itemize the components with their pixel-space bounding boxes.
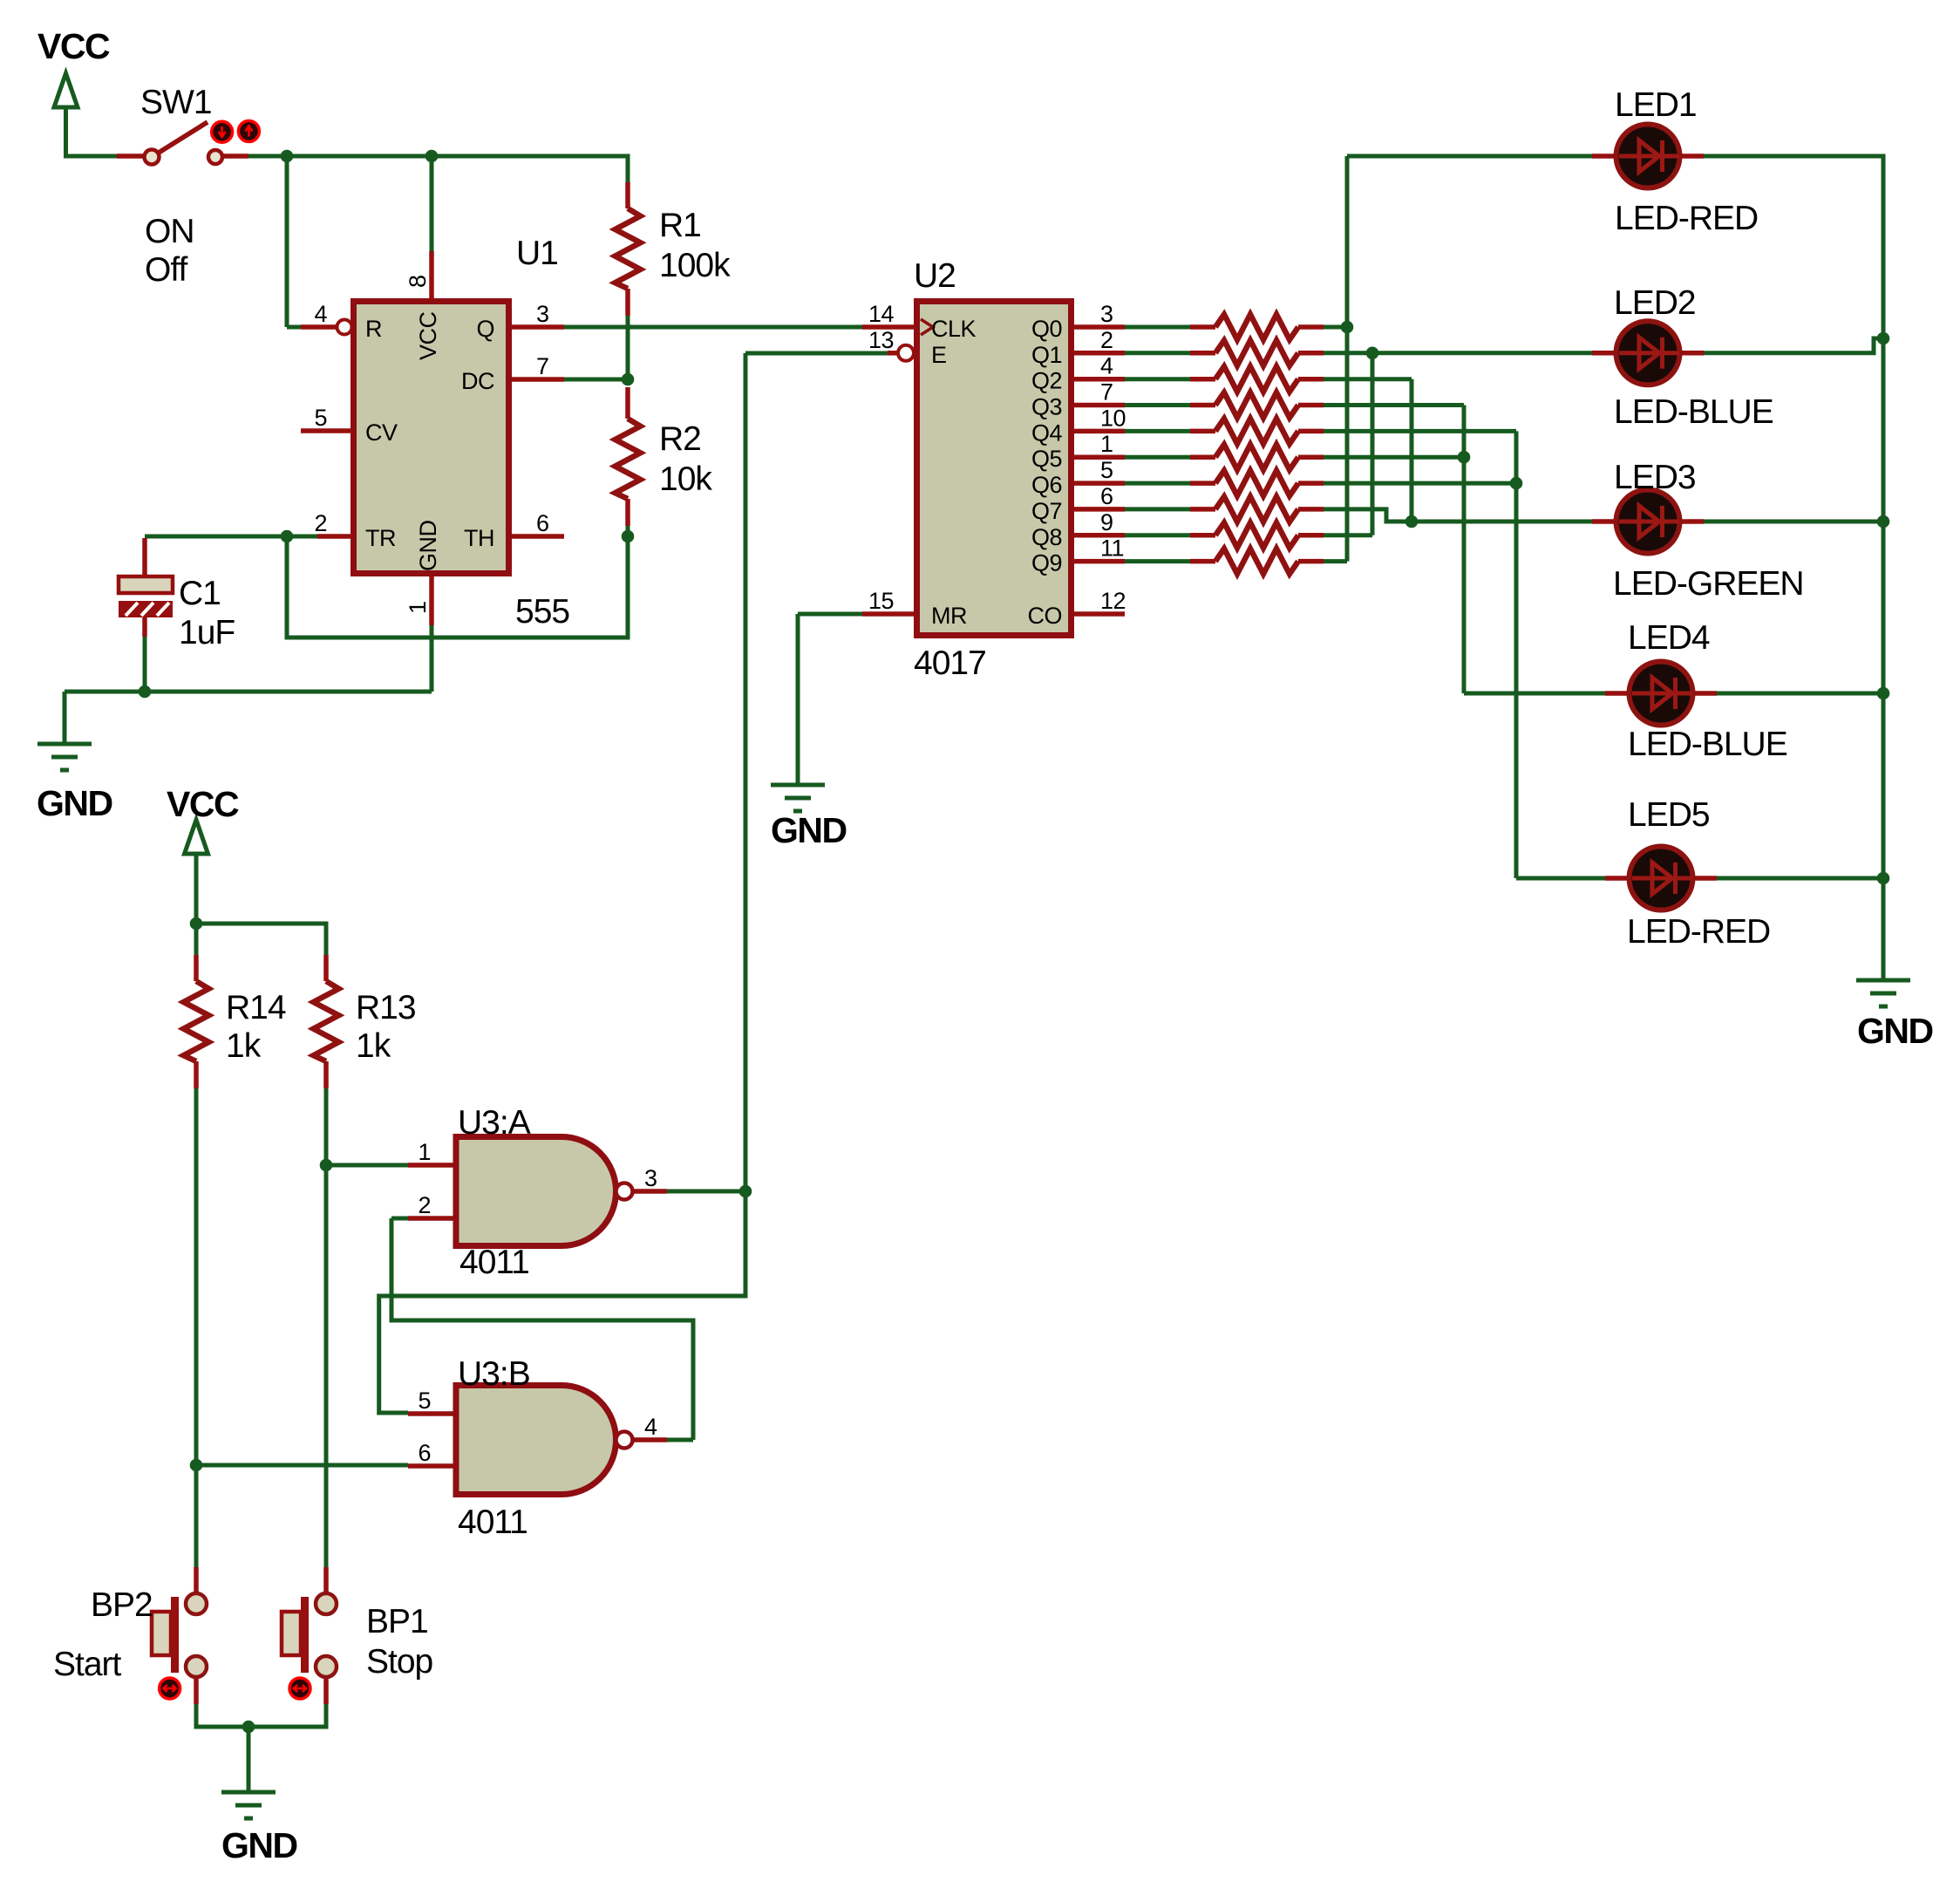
value 1k R13: [356, 1027, 391, 1065]
svg-text:GND: GND: [771, 810, 847, 850]
value 100k: [659, 247, 731, 284]
value LED-BLUE 2: [1614, 393, 1773, 431]
svg-text:R1: R1: [659, 207, 701, 244]
svg-text:1uF: 1uF: [179, 614, 235, 651]
pin stub U1 Q3: [512, 324, 564, 330]
junction LED3 colC: [1405, 515, 1419, 528]
svg-text:Q8: Q8: [1031, 524, 1062, 550]
label R1: [659, 207, 701, 244]
label LED1: [1615, 86, 1697, 124]
junction Q5 colD: [1458, 451, 1471, 464]
svg-text:1k: 1k: [226, 1027, 262, 1065]
pin stub U1 R with bubble: [301, 320, 352, 335]
pin number 2 U1: [314, 510, 327, 536]
value LED-RED 5: [1627, 913, 1770, 951]
pin stub U1 TR2: [317, 534, 350, 539]
pin number 14 U2: [868, 301, 895, 327]
wire Q3 Q5 to LED4: [1324, 406, 1605, 694]
svg-text:4: 4: [644, 1414, 657, 1440]
LED1: [1616, 125, 1680, 188]
svg-text:1: 1: [418, 1139, 431, 1165]
label Stop: [366, 1643, 433, 1681]
svg-text:4011: 4011: [458, 1504, 527, 1541]
pin number 4 U1: [314, 301, 327, 327]
wire LED3 right: [1704, 520, 1883, 524]
pin stub U2 MR: [862, 611, 914, 617]
pin number 5 U3B: [418, 1388, 431, 1414]
power VCC arrow lower: [185, 820, 208, 854]
pin number 15 U2: [868, 588, 894, 614]
svg-text:U2: U2: [914, 257, 956, 295]
svg-text:15: 15: [868, 588, 894, 614]
wire LED4 right: [1717, 692, 1883, 696]
pin name R: [365, 316, 382, 342]
value LED-BLUE 4: [1628, 726, 1787, 763]
svg-text:3: 3: [536, 301, 549, 327]
wire right cathode bus: [1704, 156, 1883, 980]
label ON: [145, 213, 194, 250]
pin name TR: [365, 525, 396, 551]
pin stub U2 CO: [1074, 611, 1125, 617]
svg-text:1k: 1k: [356, 1027, 391, 1065]
value 1k R14: [226, 1027, 262, 1065]
pin name E: [931, 342, 947, 368]
svg-text:LED4: LED4: [1628, 619, 1710, 657]
svg-text:GND: GND: [37, 783, 112, 823]
ground symbol 555 area: [37, 744, 92, 770]
wire 555 GND to rail: [65, 625, 432, 744]
capacitor C1: [119, 576, 173, 617]
svg-text:2: 2: [314, 510, 327, 536]
svg-text:R13: R13: [356, 989, 416, 1026]
op-amp U3:B NAND gate: [456, 1386, 633, 1495]
svg-text:ON: ON: [145, 213, 194, 250]
svg-text:U3:A: U3:A: [458, 1104, 531, 1142]
svg-text:SW1: SW1: [140, 84, 212, 121]
wire R13 bottom to BP1 and gate pin1: [326, 1088, 408, 1567]
svg-text:Q6: Q6: [1031, 472, 1062, 498]
LED2: [1616, 321, 1680, 385]
svg-text:8: 8: [405, 275, 431, 288]
pin stub BP2 bottom: [194, 1677, 199, 1704]
svg-text:CO: CO: [1028, 603, 1063, 629]
svg-text:VCC: VCC: [167, 784, 239, 824]
junction TR: [281, 530, 294, 543]
svg-text:U1: U1: [516, 235, 558, 272]
svg-text:Stop: Stop: [366, 1643, 433, 1681]
svg-text:LED2: LED2: [1614, 284, 1696, 322]
svg-text:3: 3: [1100, 301, 1113, 327]
node GND label mid: [771, 810, 847, 850]
label R13: [356, 989, 416, 1026]
pin number 5 U1: [314, 405, 327, 431]
wire VCC top net: [66, 108, 629, 327]
pin stub U1 CV5: [301, 428, 350, 433]
junction SW1 out: [281, 150, 294, 163]
wire LED2 right jog: [1704, 338, 1883, 353]
switch SW1: [145, 122, 223, 165]
pin name Q: [476, 316, 494, 342]
junction bus LED2: [1877, 332, 1890, 345]
node GND label left: [37, 783, 112, 823]
node GND label BP: [221, 1825, 297, 1865]
wire TH TR loop: [145, 526, 628, 638]
svg-text:DC: DC: [461, 368, 494, 394]
ground symbol below U2: [771, 785, 825, 811]
label SW1: [140, 84, 212, 121]
switch SW1 actuator buttons: [212, 121, 260, 143]
pin numbers U2 right: [1100, 301, 1126, 614]
junction VCC pin8: [425, 150, 439, 163]
svg-text:Q0: Q0: [1031, 316, 1062, 342]
wire E net from U3:A output: [379, 353, 888, 1413]
IC U1 555 body: [354, 302, 509, 574]
pin number 6 U3B: [418, 1440, 431, 1466]
pin stub C1 bottom: [142, 617, 147, 637]
junction bus LED3: [1877, 515, 1890, 528]
svg-text:11: 11: [1100, 535, 1124, 562]
pin stub U3B pin6: [408, 1463, 456, 1469]
wire U3:B output feedback to pin2: [391, 1218, 693, 1440]
LED3: [1616, 490, 1680, 554]
resistor R2: [616, 387, 641, 526]
pin stub U3B pin5: [408, 1411, 456, 1416]
svg-text:LED-RED: LED-RED: [1615, 200, 1758, 237]
junction C1 gnd rail: [139, 685, 152, 699]
pin stub BP1 bottom: [323, 1677, 329, 1704]
svg-text:10k: 10k: [659, 460, 712, 498]
pin stub U3A pin2: [408, 1216, 456, 1221]
label LED3: [1614, 459, 1696, 496]
pin stub U3A pin3: [633, 1189, 667, 1194]
svg-text:6: 6: [418, 1440, 431, 1466]
svg-text:6: 6: [1100, 483, 1113, 509]
svg-text:4017: 4017: [914, 644, 986, 682]
wire Q output to CLK: [564, 325, 862, 330]
wire BP buttons to ground: [196, 1704, 326, 1792]
pin stubs LED1: [1592, 153, 1704, 159]
svg-text:LED-GREEN: LED-GREEN: [1613, 565, 1804, 603]
svg-text:C1: C1: [179, 575, 221, 612]
wire Q2 Q7 to LED3: [1324, 379, 1592, 522]
junction bus LED5: [1877, 872, 1890, 885]
label LED5: [1628, 796, 1710, 834]
pin stubs U2 Q0-Q9: [1074, 327, 1125, 562]
svg-text:LED-BLUE: LED-BLUE: [1628, 726, 1787, 763]
value 10k: [659, 460, 712, 498]
pin name VCC rotated: [415, 311, 441, 360]
junction Q1 colB: [1366, 347, 1379, 360]
svg-text:7: 7: [536, 353, 549, 379]
svg-text:4011: 4011: [459, 1244, 529, 1281]
svg-text:LED-RED: LED-RED: [1627, 913, 1770, 951]
pin stub BP1 top: [323, 1567, 329, 1593]
pin name CO: [1028, 603, 1063, 629]
wire VCC2 to R14 R13: [196, 853, 326, 955]
pin number 6 U1: [536, 510, 549, 536]
svg-text:TR: TR: [365, 525, 396, 551]
wire LED5 right: [1717, 876, 1883, 881]
svg-text:E: E: [931, 342, 947, 368]
label LED4: [1628, 619, 1710, 657]
svg-text:4: 4: [1100, 353, 1113, 379]
svg-text:Q7: Q7: [1031, 498, 1062, 524]
svg-text:555: 555: [515, 593, 569, 631]
junction TH R2: [622, 530, 635, 543]
wire Q4 Q6 to LED5: [1324, 431, 1605, 878]
svg-text:14: 14: [868, 301, 895, 327]
IC U2 4017 body: [917, 302, 1072, 636]
pin number 2 U3A: [418, 1192, 431, 1218]
svg-text:MR: MR: [931, 603, 967, 629]
label LED2: [1614, 284, 1696, 322]
svg-text:Start: Start: [53, 1646, 122, 1683]
label BP2: [91, 1586, 153, 1624]
svg-text:7: 7: [1100, 379, 1113, 406]
wire LED2 row and column B: [1324, 353, 1592, 535]
pin name MR: [931, 603, 967, 629]
transistor BP2 push button body: [152, 1593, 207, 1677]
svg-text:LED5: LED5: [1628, 796, 1710, 834]
svg-text:5: 5: [1100, 457, 1113, 483]
junction BP ground: [242, 1721, 255, 1734]
ground symbol right bus: [1856, 980, 1910, 1006]
junction U3A output: [739, 1185, 752, 1198]
pin stubs LED4: [1605, 691, 1717, 696]
pin name TH: [464, 525, 494, 551]
junction Q6 colE: [1510, 477, 1523, 490]
pin name DC: [461, 368, 494, 394]
junction DC R1 R2: [622, 373, 635, 386]
svg-text:U3:B: U3:B: [458, 1355, 530, 1393]
pin number 1 U3A: [418, 1139, 431, 1165]
pin names Q0-Q9: [1031, 316, 1063, 576]
junction pin1 tap: [320, 1159, 333, 1172]
junction bus LED4: [1877, 687, 1890, 700]
node GND label right: [1857, 1011, 1933, 1051]
wire R14 bottom to BP2 and gate pin6: [196, 1088, 408, 1567]
LED5: [1630, 847, 1693, 910]
ground symbol BP area: [221, 1792, 276, 1818]
label U2: [914, 257, 956, 295]
pin stub U3A pin1: [408, 1163, 456, 1168]
value LED-GREEN: [1613, 565, 1804, 603]
svg-text:R2: R2: [659, 420, 701, 458]
svg-text:CV: CV: [365, 419, 398, 446]
svg-text:100k: 100k: [659, 247, 731, 284]
svg-text:GND: GND: [1857, 1011, 1933, 1051]
svg-text:Q3: Q3: [1031, 394, 1062, 420]
svg-text:6: 6: [536, 510, 549, 536]
pin stub U3B pin4: [633, 1437, 667, 1442]
op-amp U3:A NAND gate: [456, 1137, 633, 1246]
pin stub C1 top: [142, 538, 147, 576]
svg-text:GND: GND: [221, 1825, 297, 1865]
svg-text:Off: Off: [145, 251, 187, 289]
svg-text:VCC: VCC: [415, 311, 441, 360]
svg-text:9: 9: [1100, 509, 1113, 535]
pin stub BP2 top: [194, 1567, 199, 1593]
svg-text:2: 2: [418, 1192, 431, 1218]
svg-text:Q: Q: [476, 316, 494, 342]
label BP1: [366, 1603, 428, 1640]
pin stub U1 DC7: [512, 377, 564, 382]
node VCC label top: [37, 26, 110, 66]
svg-text:R: R: [365, 316, 382, 342]
node VCC label lower: [167, 784, 239, 824]
svg-text:LED1: LED1: [1615, 86, 1697, 124]
pin number 4 U3B: [644, 1414, 657, 1440]
pin stub U1 VCC8: [429, 251, 434, 298]
junction Q0 colA: [1341, 321, 1354, 334]
svg-text:5: 5: [418, 1388, 431, 1414]
pin number 13 U2: [868, 327, 894, 353]
svg-text:LED3: LED3: [1614, 459, 1696, 496]
svg-text:12: 12: [1100, 588, 1126, 614]
value 1uF: [179, 614, 235, 651]
svg-text:LED-BLUE: LED-BLUE: [1614, 393, 1773, 431]
pin stub U1 GND1: [429, 576, 434, 625]
svg-text:13: 13: [868, 327, 894, 353]
svg-text:Q5: Q5: [1031, 446, 1062, 472]
label Off: [145, 251, 187, 289]
pin stub SW1 left: [117, 153, 144, 159]
value 4011 B: [458, 1504, 527, 1541]
svg-text:R14: R14: [226, 989, 286, 1026]
svg-text:2: 2: [1100, 327, 1113, 353]
pin number 7 U1: [536, 353, 549, 379]
svg-text:Q1: Q1: [1031, 342, 1062, 368]
wire R1 bottom to DC junction: [564, 316, 628, 384]
pin stubs LED5: [1605, 876, 1717, 881]
pin number 1 U1 rotated: [405, 601, 431, 614]
wire resistor pack inputs: [1125, 327, 1190, 562]
svg-text:VCC: VCC: [37, 26, 110, 66]
pin number 8 U1 rotated: [405, 275, 431, 288]
wire LED1 row and column A: [1324, 156, 1592, 562]
label Start: [53, 1646, 122, 1683]
pin stub SW1 right: [222, 153, 248, 159]
svg-text:3: 3: [644, 1165, 657, 1191]
resistor R14: [184, 955, 209, 1088]
pin leads resistor pack: [1190, 327, 1324, 562]
pin stubs LED3: [1592, 519, 1704, 524]
pin stubs LED2: [1592, 351, 1704, 356]
label R2: [659, 420, 701, 458]
resistor pack zigzags: [1215, 315, 1298, 575]
junction pin6 tap: [190, 1459, 203, 1472]
svg-text:10: 10: [1100, 405, 1126, 431]
label 4017: [914, 644, 986, 682]
svg-text:GND: GND: [415, 521, 441, 572]
svg-text:4: 4: [314, 301, 327, 327]
pin name GND rotated: [415, 521, 441, 572]
resistor R1: [616, 182, 641, 316]
pin name CV: [365, 419, 398, 446]
LED4: [1630, 662, 1693, 726]
svg-text:BP1: BP1: [366, 1603, 428, 1640]
pin number 3 U3A: [644, 1165, 657, 1191]
pin stub U2 E with bubble: [888, 345, 914, 361]
label C1: [179, 575, 221, 612]
label R14: [226, 989, 286, 1026]
svg-text:Q4: Q4: [1031, 419, 1063, 446]
label U1: [516, 235, 558, 272]
pin stub U2 CLK: [862, 324, 914, 330]
svg-text:Q9: Q9: [1031, 550, 1062, 576]
pin number 3 U1: [536, 301, 549, 327]
junction VCC2 split: [190, 917, 203, 931]
BP1 actuator button: [289, 1678, 310, 1699]
resistor R13: [314, 955, 339, 1088]
label U3:A: [458, 1104, 531, 1142]
pin stub U1 TH6: [512, 534, 564, 539]
BP2 actuator button: [160, 1678, 180, 1699]
svg-text:Q2: Q2: [1031, 368, 1062, 394]
svg-text:1: 1: [405, 601, 431, 614]
label 555: [515, 593, 569, 631]
svg-text:BP2: BP2: [91, 1586, 153, 1624]
svg-text:CLK: CLK: [931, 316, 977, 342]
svg-text:TH: TH: [464, 525, 494, 551]
power VCC arrow top left: [54, 73, 78, 107]
value 4011 A: [459, 1244, 529, 1281]
value LED-RED 1: [1615, 200, 1758, 237]
label U3:B: [458, 1355, 530, 1393]
transistor BP1 push button body: [282, 1593, 337, 1677]
wire MR to ground: [798, 614, 862, 785]
svg-text:5: 5: [314, 405, 327, 431]
pin name CLK: [931, 316, 977, 342]
svg-text:1: 1: [1100, 431, 1113, 457]
